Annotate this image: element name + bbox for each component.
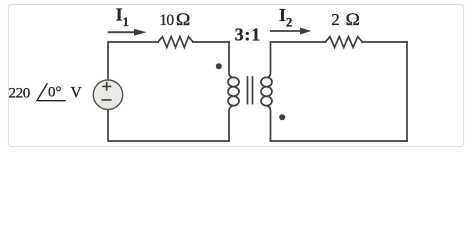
svg-text:2 Ω: 2 Ω bbox=[331, 9, 360, 29]
transformer core bbox=[248, 77, 253, 104]
svg-text:220: 220 bbox=[9, 85, 30, 101]
svg-text:3:1: 3:1 bbox=[235, 25, 261, 45]
wire bottom secondary rail bbox=[271, 140, 408, 142]
voltage source VS 220V bbox=[93, 80, 122, 109]
dot primary (top) bbox=[216, 63, 222, 69]
resistor 2ohm zigzag bbox=[325, 37, 362, 48]
svg-text:10 Ω: 10 Ω bbox=[159, 9, 190, 29]
wire secondary top to 2ohm resistor bbox=[271, 41, 326, 43]
angle symbol bbox=[37, 83, 66, 100]
wire top-left segment (source top to 10ohm resistor) bbox=[108, 42, 158, 80]
wire secondary vertical into coil bbox=[267, 42, 271, 78]
wire 2ohm to right corner bbox=[362, 41, 407, 43]
wire right vertical bbox=[406, 42, 408, 141]
wire bottom primary rail bbox=[108, 110, 229, 141]
transformer secondary coil L2 bbox=[261, 77, 272, 105]
svg-text:0°: 0° bbox=[48, 84, 62, 100]
wire primary coil bottom to bottom rail bbox=[229, 106, 234, 141]
wire primary vertical into coil bbox=[229, 42, 234, 78]
label source voltage 220 angle 0 V bbox=[9, 83, 83, 101]
svg-text:V: V bbox=[71, 84, 83, 101]
dot secondary (bottom) bbox=[279, 114, 285, 120]
current arrow I2 bbox=[270, 28, 311, 35]
current arrow I1 bbox=[108, 29, 147, 36]
wire secondary coil bottom to bottom rail bbox=[267, 106, 271, 141]
resistor 10ohm zigzag bbox=[158, 37, 193, 48]
transformer primary coil L1 bbox=[228, 77, 239, 105]
wire 10ohm to primary top corner bbox=[193, 41, 229, 43]
